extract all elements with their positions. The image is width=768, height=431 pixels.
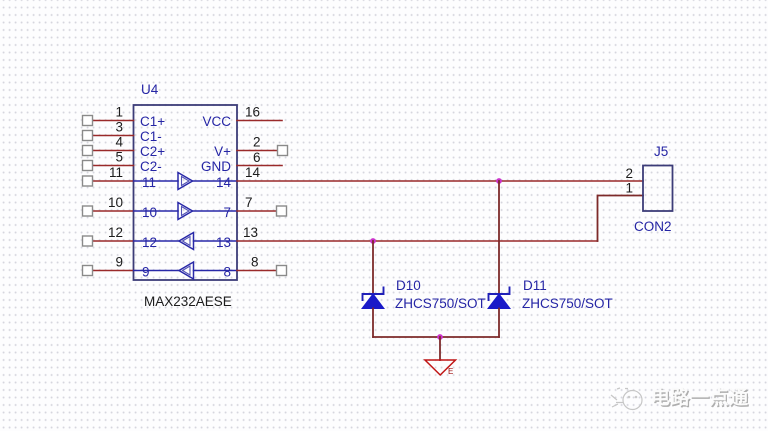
U4 pin 10 wire bbox=[92, 210, 134, 212]
svg-text:D11: D11 bbox=[523, 278, 547, 293]
U4 pin 8 wire bbox=[237, 270, 277, 272]
U4 pin 5 wire bbox=[92, 165, 134, 167]
svg-text:C2-: C2- bbox=[140, 159, 162, 174]
U4 internal lead driver 2 to pin 7 bbox=[193, 210, 238, 212]
svg-text:VCC: VCC bbox=[202, 114, 231, 129]
svg-text:1: 1 bbox=[625, 181, 633, 196]
svg-text:J5: J5 bbox=[654, 144, 668, 159]
U4 pin 14 wire to J5 pin 2 bbox=[237, 180, 643, 182]
svg-text:9: 9 bbox=[142, 265, 150, 280]
svg-text:14: 14 bbox=[245, 165, 261, 180]
svg-text:MAX232AESE: MAX232AESE bbox=[144, 294, 232, 309]
svg-text:11: 11 bbox=[109, 165, 123, 180]
diode D10 anode triangle bbox=[362, 294, 384, 309]
svg-text:ZHCS750/SOT: ZHCS750/SOT bbox=[395, 296, 486, 311]
U4 pin 4 terminal bbox=[83, 146, 93, 156]
svg-text:13: 13 bbox=[216, 235, 231, 250]
U4 internal lead pin 12 to receiver 1 bbox=[134, 240, 180, 242]
diode D10 schottky cathode bar bbox=[363, 288, 384, 301]
U4 pin 6 wire bbox=[237, 165, 282, 167]
svg-text:2: 2 bbox=[625, 166, 633, 181]
wire from ground rail down to earth symbol bbox=[439, 337, 441, 360]
ground rail wire bbox=[373, 336, 499, 338]
svg-text:10: 10 bbox=[108, 195, 123, 210]
svg-text:U4: U4 bbox=[141, 82, 159, 97]
watermark mascot bbox=[611, 388, 642, 410]
svg-text:GND: GND bbox=[201, 159, 231, 174]
U4 pin 3 terminal bbox=[83, 131, 93, 141]
connector J5 body bbox=[643, 166, 673, 212]
svg-text:8: 8 bbox=[251, 255, 259, 270]
svg-text:D10: D10 bbox=[396, 278, 421, 293]
driver buffer 1 (T1) bbox=[178, 173, 193, 190]
U4 pin 12 terminal bbox=[83, 236, 93, 246]
svg-text:V+: V+ bbox=[214, 144, 231, 159]
svg-text:10: 10 bbox=[142, 205, 157, 220]
U4 pin 1 terminal bbox=[83, 116, 93, 126]
svg-text:C1+: C1+ bbox=[140, 114, 165, 129]
svg-text:4: 4 bbox=[115, 135, 123, 150]
U4 pin 4 wire bbox=[92, 150, 134, 152]
svg-text:电路一点通: 电路一点通 bbox=[651, 386, 749, 409]
U4 pin 11 wire bbox=[92, 180, 134, 182]
junction node on pin13 net above D10 bbox=[370, 238, 376, 244]
schematic drawing layer bbox=[83, 82, 673, 376]
diode D11 schottky cathode bar bbox=[489, 288, 510, 301]
svg-text:6: 6 bbox=[253, 150, 261, 165]
U4 pin 8 terminal bbox=[277, 266, 287, 276]
U4 pin 7 wire bbox=[237, 210, 277, 212]
U4 pin 12 wire bbox=[92, 240, 134, 242]
U4 internal lead pin 11 to driver 1 bbox=[134, 180, 179, 182]
junction node on pin14 net above D11 bbox=[496, 178, 502, 184]
U4 internal lead pin 9 to receiver 2 bbox=[134, 270, 180, 272]
svg-text:7: 7 bbox=[245, 195, 253, 210]
svg-text:12: 12 bbox=[142, 235, 157, 250]
U4 pin 1 wire bbox=[92, 120, 134, 122]
U4 pin 3 wire bbox=[92, 135, 134, 137]
svg-text:3: 3 bbox=[115, 120, 123, 135]
U4 internal lead driver 1 to pin 14 bbox=[193, 180, 238, 182]
diode D11 anode triangle bbox=[488, 294, 510, 309]
U4 pin 7 terminal bbox=[277, 206, 287, 216]
svg-text:13: 13 bbox=[243, 225, 258, 240]
svg-text:E: E bbox=[448, 367, 453, 376]
svg-text:CON2: CON2 bbox=[634, 219, 672, 234]
svg-text:C2+: C2+ bbox=[140, 144, 165, 159]
svg-text:7: 7 bbox=[223, 205, 231, 220]
svg-text:C1-: C1- bbox=[140, 129, 162, 144]
wire from pin13 net down to D10 cathode bbox=[372, 241, 374, 294]
U4 pin 2 wire bbox=[237, 150, 278, 152]
U4 pin 10 terminal bbox=[83, 206, 93, 216]
driver buffer 2 (T2) bbox=[178, 203, 193, 220]
svg-text:11: 11 bbox=[142, 175, 156, 190]
U4 internal lead pin 10 to driver 2 bbox=[134, 210, 179, 212]
svg-text:8: 8 bbox=[223, 265, 231, 280]
svg-text:ZHCS750/SOT: ZHCS750/SOT bbox=[522, 296, 613, 311]
U4 pin 13 wire bbox=[237, 240, 598, 242]
svg-text:9: 9 bbox=[115, 255, 123, 270]
U4 internal lead receiver 1 to pin 13 bbox=[194, 240, 238, 242]
receiver buffer 1 (R1) bbox=[179, 233, 194, 250]
wire from D11 anode down to ground rail bbox=[498, 309, 500, 338]
wire from D10 anode down to ground rail bbox=[372, 309, 374, 338]
wire from pin14 net down to D11 cathode bbox=[498, 181, 500, 294]
svg-text:5: 5 bbox=[115, 150, 123, 165]
wire vertical from node at x598 down to pin13 net bbox=[598, 196, 644, 242]
U4 pin 11 terminal bbox=[83, 176, 93, 186]
junction node on ground rail bbox=[437, 334, 443, 340]
U4 pin 5 terminal bbox=[83, 161, 93, 171]
U4 internal lead receiver 2 to pin 8 bbox=[194, 270, 238, 272]
U4 pin 2 terminal bbox=[278, 146, 288, 156]
U4 pin 16 wire bbox=[237, 120, 282, 122]
earth ground symbol bbox=[425, 360, 456, 375]
U4 pin 9 wire bbox=[92, 270, 134, 272]
svg-text:12: 12 bbox=[108, 225, 123, 240]
svg-text:16: 16 bbox=[245, 105, 260, 120]
IC U4 body bbox=[134, 105, 238, 280]
U4 pin 9 terminal bbox=[83, 266, 93, 276]
receiver buffer 2 (R2) bbox=[179, 262, 194, 279]
svg-text:1: 1 bbox=[115, 105, 123, 120]
svg-text:14: 14 bbox=[216, 175, 232, 190]
svg-text:2: 2 bbox=[253, 135, 261, 150]
